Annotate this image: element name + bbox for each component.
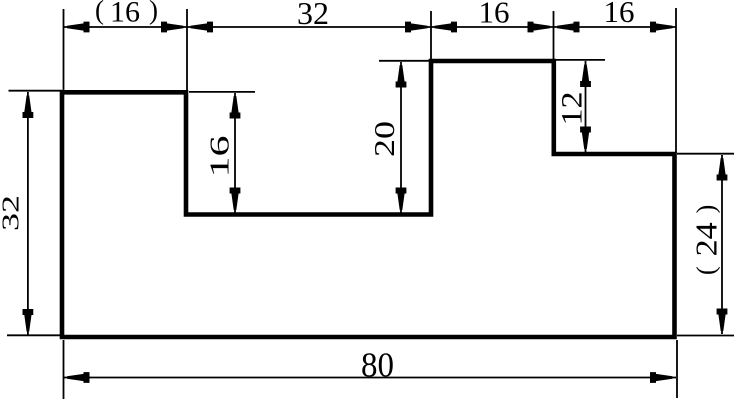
ext line x=553.5 [553, 11, 555, 60]
arrow 32top right [405, 22, 428, 33]
arrow (16) left [67, 22, 90, 33]
arrow 16b right [650, 22, 673, 33]
svg-text:16: 16 [604, 0, 635, 29]
arrow 80 right [650, 372, 673, 383]
svg-text:16: 16 [205, 136, 235, 178]
dim line 12 [585, 61, 587, 153]
arrow 16a right [528, 22, 551, 33]
left dim top ext [9, 90, 63, 92]
arrow 32top left [191, 22, 214, 33]
arrow 12 bottom [580, 127, 591, 150]
ext line x=187 [186, 9, 188, 91]
dim line 20 [400, 62, 402, 214]
bottom dim left ext [63, 340, 65, 399]
dim line 16 internal [234, 93, 236, 214]
svg-text:(24): (24) [689, 205, 724, 275]
arrow (24) bottom [717, 309, 728, 332]
top dim line [64, 26, 677, 28]
arrow 32left top [23, 96, 34, 119]
arrow 20 bottom [396, 188, 407, 211]
svg-text:32: 32 [297, 0, 329, 31]
bottom dim line 80 [64, 377, 677, 379]
part outline [62, 61, 675, 337]
(24) bottom ext [677, 335, 734, 337]
16 internal top ext [189, 91, 255, 93]
ext line x=676 [675, 8, 677, 153]
svg-text:32: 32 [0, 195, 25, 231]
arrow 20 top [396, 65, 407, 88]
arrow 32left bottom [23, 309, 34, 332]
svg-text:20: 20 [369, 121, 401, 157]
ext line x=431 [430, 11, 432, 60]
dim line (24) [721, 155, 723, 334]
12 top ext [555, 59, 605, 61]
arrow 16b left [557, 22, 580, 33]
arrow (24) top [717, 158, 728, 181]
svg-text:(16): (16) [95, 0, 158, 29]
bottom dim right ext [676, 340, 678, 398]
ext line top-left [63, 9, 65, 91]
(24) top ext [677, 153, 734, 155]
svg-text:12: 12 [556, 92, 589, 126]
left dim line 32 [27, 92, 29, 335]
svg-text:80: 80 [361, 346, 394, 385]
arrow (16) right [161, 22, 184, 33]
left dim bottom ext [7, 334, 62, 336]
svg-text:16: 16 [479, 0, 510, 30]
arrow 16int bottom [230, 188, 241, 211]
arrow 12 top [580, 65, 591, 88]
arrow 16a left [435, 22, 458, 33]
arrow 16int top [230, 96, 241, 119]
20 top ext [379, 60, 430, 62]
arrow 80 left [67, 372, 90, 383]
